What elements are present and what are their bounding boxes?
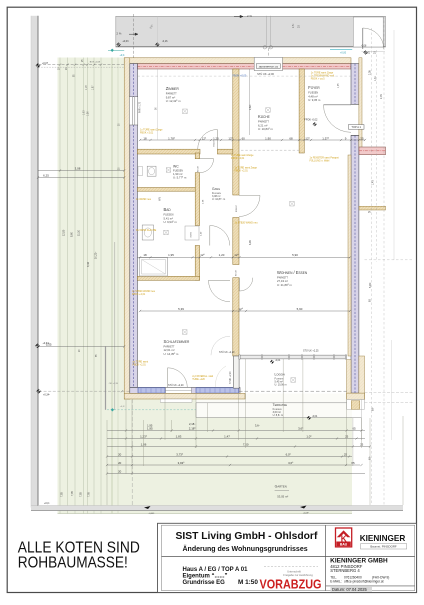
svg-text:1,95: 1,95 [168, 253, 174, 257]
svg-text:FBOK +2,01: FBOK +2,01 [235, 170, 249, 173]
svg-text:1,40: 1,40 [372, 180, 375, 185]
svg-text:2 %: 2 % [117, 32, 122, 36]
right margin dimension lines [371, 28, 373, 505]
niche entrance door leaf [362, 28, 364, 49]
terrace white patch [196, 394, 352, 418]
svg-text:1,78⁵: 1,78⁵ [168, 136, 176, 140]
KIENINGER logo [336, 528, 352, 547]
top exterior wall: existing masonry (pink) [137, 64, 351, 69]
svg-text:1,06: 1,06 [141, 442, 147, 446]
retaining line with level marker [107, 409, 196, 411]
svg-text:3,6⁵: 3,6⁵ [298, 426, 304, 430]
svg-text:1,35: 1,35 [338, 83, 340, 88]
svg-text:Änderung des Wohnungsgrundriss: Änderung des Wohnungsgrundrisses [183, 545, 308, 553]
level marker left mid [37, 389, 41, 393]
interior wall WC/Bad right (vertical) [195, 153, 199, 159]
svg-text:BOK -0,58: BOK -0,58 [90, 62, 101, 64]
svg-text:3,73⁵: 3,73⁵ [176, 452, 184, 456]
schlafzimmer door [209, 279, 231, 281]
kueche window in top wall [254, 57, 282, 70]
svg-text:U: 14,35⁵ m: U: 14,35⁵ m [164, 352, 180, 356]
svg-text:U: 12,42⁵ m: U: 12,42⁵ m [166, 99, 182, 103]
svg-text:Baumst. PINSDORF: Baumst. PINSDORF [370, 545, 397, 549]
left margin dimension lines [59, 58, 61, 514]
svg-text:6,25: 6,25 [43, 173, 49, 177]
svg-text:-0,04: -0,04 [312, 416, 318, 418]
right wall outer insulation strip [359, 58, 362, 150]
svg-text:1,31: 1,31 [374, 76, 377, 81]
bathtub [140, 258, 168, 277]
svg-text:90/90: 90/90 [191, 231, 193, 237]
svg-text:FBOK + ca.5: FBOK + ca.5 [311, 78, 325, 81]
svg-text:2,5⁵: 2,5⁵ [291, 24, 295, 28]
svg-text:FFOK -0,02: FFOK -0,02 [304, 119, 318, 122]
svg-text:U: 10,06 m: U: 10,06 m [275, 384, 287, 387]
terrace outline [196, 402, 347, 404]
wc toilet [138, 167, 143, 176]
svg-text:1x WAND neu: 1x WAND neu [136, 198, 152, 201]
loggia wall end cap [347, 393, 365, 399]
svg-text:5,55: 5,55 [46, 342, 52, 346]
bad door [209, 226, 211, 246]
svg-text:TÜRE +120: TÜRE +120 [192, 378, 205, 381]
svg-text:Freigabe zur Ausführung: Freigabe zur Ausführung [283, 573, 313, 577]
vent axis in grey band [266, 16, 268, 48]
neighbour building grey band top [116, 16, 386, 47]
svg-text:53,05 m²: 53,05 m² [277, 495, 288, 499]
loggia floor edge (dashed) [239, 390, 347, 392]
svg-text:Grundrisse EG: Grundrisse EG [183, 580, 226, 586]
entry door gap + foyer door [351, 103, 359, 105]
svg-text:M 1:50: M 1:50 [238, 579, 258, 586]
svg-text:25: 25 [345, 434, 349, 438]
cyan wall marks [111, 49, 114, 52]
svg-text:9,44: 9,44 [87, 262, 90, 267]
left exterior wall: outer insulation (tan hatch) [124, 58, 130, 399]
svg-text:BAU: BAU [340, 543, 348, 547]
signature line [264, 566, 318, 568]
svg-text:1,20: 1,20 [213, 136, 219, 140]
svg-text:2,18⁵: 2,18⁵ [189, 422, 195, 426]
svg-text:FOYER: FOYER [308, 85, 320, 90]
terrace divider wall stub right [359, 206, 386, 210]
svg-text:STERNBERG 4: STERNBERG 4 [330, 568, 360, 573]
svg-text:FBOK +2,01: FBOK +2,01 [132, 293, 146, 296]
svg-text:STÜ UK +2,20: STÜ UK +2,20 [219, 351, 235, 354]
svg-text:VORABZUG: VORABZUG [260, 578, 322, 592]
svg-text:TOP A 1: TOP A 1 [351, 125, 361, 129]
svg-text:1,95: 1,95 [147, 424, 153, 428]
svg-text:WM: WM [159, 197, 162, 201]
date [331, 587, 373, 592]
svg-text:WOHNEN / ESSEN: WOHNEN / ESSEN [277, 270, 308, 275]
garden level marker [270, 360, 274, 364]
left exterior wall: new masonry (purple) [130, 64, 138, 388]
wohnen loggia door arc [211, 336, 230, 355]
svg-text:LOGGIA: LOGGIA [275, 373, 286, 377]
svg-text:12,80: 12,80 [62, 229, 65, 236]
svg-text:80⁵: 80⁵ [371, 407, 375, 411]
garden kerb line [105, 347, 107, 410]
garden boundary lines [111, 58, 113, 514]
svg-text:U: 9,05 m: U: 9,05 m [308, 98, 321, 102]
svg-text:FBOK +2,01: FBOK +2,01 [133, 364, 147, 367]
svg-text:7,85: 7,85 [61, 492, 64, 497]
svg-text:Datum: 07.04.2025: Datum: 07.04.2025 [332, 587, 368, 592]
svg-text:1x STB20 WAND neu: 1x STB20 WAND neu [235, 222, 259, 225]
svg-text:60: 60 [242, 136, 246, 140]
svg-text:7,95: 7,95 [87, 492, 90, 497]
svg-text:7,85: 7,85 [79, 492, 82, 497]
svg-text:3,6⁵: 3,6⁵ [255, 424, 260, 428]
bottom dimension chains [107, 430, 365, 432]
wc washbasin [147, 166, 156, 176]
svg-text:ZIMMER: ZIMMER [166, 86, 180, 91]
window in left wall (Zimmer) [129, 97, 137, 125]
svg-text:10,21⁵: 10,21⁵ [93, 252, 97, 259]
bottom exterior wall (Schlafzimmer): purple masonry [130, 388, 240, 394]
svg-text:1,47: 1,47 [224, 434, 230, 438]
bottom extension lines [106, 420, 108, 505]
svg-text:3,93⁵: 3,93⁵ [178, 461, 186, 465]
garden green area bottom [58, 399, 353, 514]
svg-text:5,39: 5,39 [178, 307, 184, 311]
svg-text:1,03: 1,03 [84, 110, 86, 115]
right exterior wall purple masonry [351, 64, 359, 105]
title block divider [325, 525, 327, 590]
svg-text:OK +0,35: OK +0,35 [109, 383, 119, 385]
bad washbasin [142, 225, 153, 240]
svg-text:office-pinsdorf@kieninger.at: office-pinsdorf@kieninger.at [344, 579, 384, 583]
svg-text:2 %: 2 % [247, 14, 252, 18]
svg-text:20: 20 [118, 452, 122, 456]
svg-text:U: 10,87⁵ m: U: 10,87⁵ m [212, 197, 225, 201]
schlafzimmer dimension row y310 [140, 310, 350, 312]
svg-text:Eigentum “......”: Eigentum “......” [183, 574, 228, 580]
svg-text:STÜ UK +2,20: STÜ UK +2,20 [168, 384, 184, 387]
svg-text:Unterschrift: Unterschrift [287, 569, 301, 573]
wc door [200, 158, 214, 160]
svg-text:6,98: 6,98 [249, 240, 252, 245]
svg-text:Haus A / EG / TOP A 01: Haus A / EG / TOP A 01 [183, 567, 249, 573]
svg-text:1,83: 1,83 [176, 434, 182, 438]
svg-text:SCHLAFZIMMER: SCHLAFZIMMER [164, 339, 190, 344]
left boundary grey strip [31, 16, 38, 508]
svg-text:FBOK +0,00: FBOK +0,00 [233, 75, 247, 78]
svg-text:1,90: 1,90 [265, 136, 271, 140]
ceiling symbols (x-box) [183, 109, 188, 114]
svg-text:U: 10,84⁵ m: U: 10,84⁵ m [258, 127, 274, 131]
svg-text:E-MAIL:: E-MAIL: [330, 579, 342, 583]
level marker left top [36, 63, 40, 67]
svg-text:1,20: 1,20 [219, 253, 225, 257]
svg-text:KIENINGER: KIENINGER [360, 533, 406, 543]
svg-text:DU 90/90 FLÄCHE: DU 90/90 FLÄCHE [136, 229, 157, 232]
svg-text:7,95: 7,95 [71, 491, 74, 496]
svg-text:25: 25 [344, 452, 348, 456]
svg-text:U: 8,8⁵ m: U: 8,8⁵ m [273, 413, 283, 417]
svg-text:FBOK +2,01: FBOK +2,01 [231, 157, 245, 160]
svg-text:7,50: 7,50 [243, 442, 249, 446]
zimmer door [216, 130, 218, 150]
svg-text:3,6⁵: 3,6⁵ [288, 461, 294, 465]
svg-text:TERRASSE: TERRASSE [273, 403, 288, 407]
svg-text:18: 18 [143, 136, 147, 140]
interior dimension row y139 [140, 139, 365, 141]
svg-text:80/197: 80/197 [236, 205, 238, 212]
svg-text:2,08: 2,08 [369, 70, 372, 75]
svg-text:GANG: GANG [212, 187, 220, 191]
svg-text:ROHBAUMASSE!: ROHBAUMASSE! [18, 554, 128, 571]
svg-text:6,0⁵: 6,0⁵ [286, 452, 292, 456]
svg-text:SIST Living GmbH - Ohlsdorf: SIST Living GmbH - Ohlsdorf [176, 531, 318, 542]
svg-text:STÜ UK +2,00: STÜ UK +2,00 [257, 72, 274, 76]
svg-text:+0,07: +0,07 [42, 62, 49, 65]
interior wall Bad/Schlafzimmer (horizontal) [137, 276, 199, 280]
svg-text:65: 65 [351, 461, 355, 465]
svg-text:25: 25 [360, 442, 364, 446]
svg-text:1,26: 1,26 [88, 111, 90, 116]
svg-text:KÜCHE: KÜCHE [258, 114, 270, 119]
svg-text:+0,3⁵: +0,3⁵ [120, 406, 125, 408]
svg-text:BAD: BAD [164, 207, 172, 212]
svg-text:20: 20 [118, 461, 122, 465]
svg-text:STUK +2,20: STUK +2,20 [230, 371, 232, 384]
svg-text:-0,08: -0,08 [361, 46, 367, 48]
interior wall Kueche/Foyer (vertical) [299, 69, 304, 153]
svg-text:-0,08⁵: -0,08⁵ [303, 513, 309, 515]
schlafzimmer terrace door [167, 368, 169, 388]
garden green area left strip [58, 58, 125, 514]
door threshold landing outside [160, 399, 192, 402]
svg-text:68: 68 [289, 136, 293, 140]
svg-text:U: 5,77⁵ m: U: 5,77⁵ m [173, 175, 187, 179]
svg-text:5,90: 5,90 [297, 307, 303, 311]
neighbour wall line [114, 242, 116, 410]
interior wall WC/Bad (horizontal) [137, 188, 195, 192]
svg-text:1,87: 1,87 [92, 85, 94, 90]
left margin horizontal dims [38, 170, 124, 172]
svg-text:18: 18 [143, 253, 147, 257]
svg-text:75/197: 75/197 [214, 140, 216, 147]
svg-text:2,76: 2,76 [380, 94, 383, 99]
bottom wall door gap / threshold [166, 388, 192, 394]
svg-text:+0,03: +0,03 [122, 40, 129, 43]
svg-text:60⁵: 60⁵ [368, 456, 372, 460]
svg-text:PAR +1,75: PAR +1,75 [139, 101, 142, 113]
svg-text:2,82⁵: 2,82⁵ [248, 104, 252, 110]
bottom exterior wall outer insulation (tan) [124, 393, 245, 399]
svg-text:25: 25 [360, 136, 364, 140]
svg-text:STÜ UK +2,25: STÜ UK +2,25 [303, 350, 319, 353]
top exterior wall: outer insulation (tan hatch) [124, 58, 351, 64]
pink party-wall stub right [359, 147, 386, 155]
svg-text:+0,00: +0,00 [340, 51, 347, 54]
interior wall Zimmer/WC (horizontal) [137, 149, 200, 154]
svg-text:1,0⁵: 1,0⁵ [306, 434, 312, 438]
bottom site boundary band [31, 506, 403, 511]
svg-text:1,18: 1,18 [86, 85, 88, 90]
svg-text:8,60: 8,60 [71, 232, 74, 237]
svg-text:80/197: 80/197 [198, 165, 200, 172]
svg-text:5,28⁵: 5,28⁵ [368, 282, 372, 288]
svg-text:FBOK +2,01: FBOK +2,01 [140, 132, 154, 135]
entrance niche (white recess in grey band) [353, 17, 383, 47]
svg-text:+0,0⁵: +0,0⁵ [44, 501, 50, 505]
bottom wall new windows (blue) [138, 388, 165, 393]
svg-text:U: 9,94⁵ m: U: 9,94⁵ m [164, 220, 178, 224]
title block frame [158, 523, 417, 592]
svg-text:5,90: 5,90 [292, 253, 298, 257]
svg-text:-0,16: -0,16 [162, 40, 168, 43]
svg-text:1,57⁵: 1,57⁵ [322, 136, 330, 140]
interior wall Zimmer/Kueche (vertical) [233, 69, 239, 195]
bad shower 90/90 [185, 226, 199, 240]
level marker left bottom [35, 505, 39, 509]
svg-text:+0,34⁵: +0,34⁵ [43, 393, 50, 397]
svg-text:FÜLLUNG n. Wahl: FÜLLUNG n. Wahl [310, 160, 330, 163]
TOP A 1 label [348, 125, 364, 130]
svg-text:-0,08⁵: -0,08⁵ [149, 513, 155, 515]
svg-text:-0,04: -0,04 [275, 360, 281, 362]
level marker at 5,55 line [35, 344, 39, 348]
living room south glazing band [239, 354, 347, 356]
svg-text:U: 21,89⁵ m: U: 21,89⁵ m [277, 283, 293, 287]
svg-text:3,08: 3,08 [75, 166, 81, 170]
svg-text:11,10: 11,10 [77, 229, 80, 236]
level markers on grey band [117, 43, 121, 47]
1m height dashed line [137, 75, 351, 77]
svg-text:80/197: 80/197 [236, 269, 238, 276]
axis dashed line through grey band [132, 14, 134, 59]
svg-text:2,18⁵: 2,18⁵ [189, 426, 197, 430]
pillar below loggia wall [347, 399, 365, 409]
svg-text:GARTEN: GARTEN [275, 485, 287, 489]
dim row y257 [137, 256, 350, 258]
svg-text:1,23⁵: 1,23⁵ [140, 434, 148, 438]
svg-text:20: 20 [118, 469, 122, 473]
wall A lower grey segment [233, 356, 239, 388]
svg-text:ZARGENFENST.120: ZARGENFENST.120 [259, 65, 279, 68]
